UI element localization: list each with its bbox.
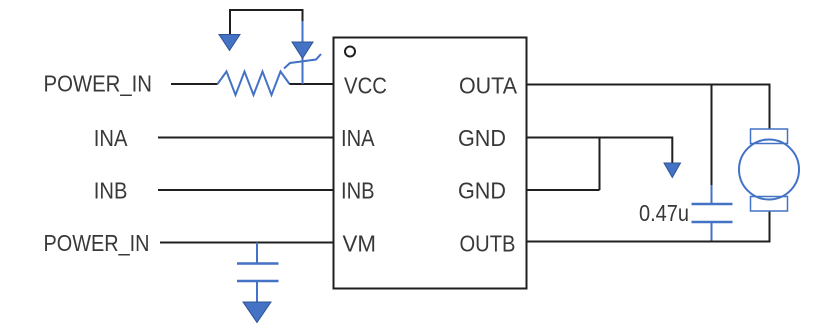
wire INA — [158, 137, 334, 139]
IC U1 body — [334, 38, 527, 289]
motor M1 body circle — [739, 140, 799, 200]
svg-text:INA: INA — [94, 125, 128, 151]
wire INB — [158, 189, 334, 191]
wire GND lower — [527, 189, 600, 191]
svg-text:VCC: VCC — [344, 72, 387, 98]
wire bracket top (arrow to zener) — [230, 10, 303, 35]
wire OUTB — [527, 241, 771, 243]
capacitor C1 plates — [237, 262, 279, 265]
capacitor C1 (bottom) top lead — [256, 243, 258, 264]
svg-text:POWER_IN: POWER_IN — [44, 230, 150, 256]
power arrow (down) — [219, 35, 240, 51]
wire motor bottom lead — [769, 211, 771, 242]
ground arrow (right) — [664, 163, 681, 178]
ground arrow (bottom) — [243, 302, 271, 323]
wire POWER_IN to VM — [160, 242, 334, 244]
wire capacitor C2 branch — [711, 85, 713, 186]
svg-text:GND: GND — [458, 178, 506, 204]
IC U1 pin-1 marker — [345, 47, 355, 57]
capacitor C2 plates — [692, 203, 733, 206]
svg-text:POWER_IN: POWER_IN — [44, 71, 153, 97]
svg-text:INA: INA — [341, 125, 375, 151]
resistor R1 — [218, 72, 290, 96]
wire GND join vertical — [599, 138, 601, 191]
zener diode D1 cathode bar — [284, 54, 321, 69]
wire OUTA — [527, 85, 770, 130]
svg-text:VM: VM — [343, 231, 377, 257]
svg-text:INB: INB — [94, 178, 128, 204]
wire resistor to VCC pin — [290, 83, 334, 85]
capacitor C2 top lead — [711, 185, 713, 204]
zener diode D1 vertical lead — [302, 21, 304, 84]
motor M1 bottom terminal — [751, 197, 788, 212]
motor M1 top terminal — [751, 129, 788, 144]
svg-text:INB: INB — [341, 178, 375, 204]
wire POWER_IN to resistor R1 — [171, 83, 218, 85]
svg-text:OUTB: OUTB — [460, 231, 516, 257]
svg-text:OUTA: OUTA — [459, 72, 518, 98]
capacitor C2 bottom lead — [711, 222, 713, 242]
wire GND upper — [527, 138, 673, 164]
svg-text:GND: GND — [458, 125, 506, 151]
capacitor C1 bottom lead — [256, 281, 258, 302]
zener diode D1 triangle — [292, 42, 313, 59]
svg-text:0.47u: 0.47u — [639, 200, 689, 226]
